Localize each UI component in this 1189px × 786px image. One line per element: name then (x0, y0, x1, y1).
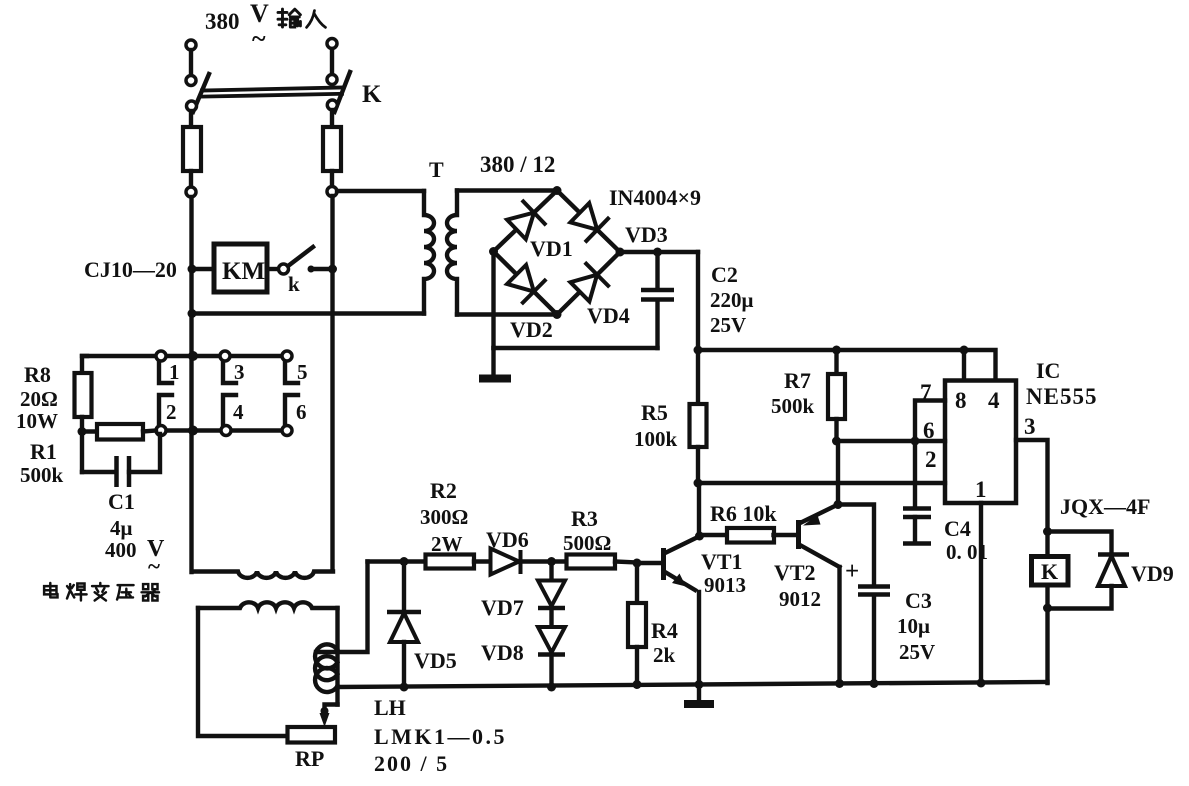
switch K left blade (193, 74, 209, 112)
contact blade 6 (285, 395, 298, 425)
contactor coil KM (214, 244, 267, 292)
diode VD7 (549, 562, 553, 581)
svg-text:5: 5 (297, 360, 308, 384)
svg-text:VD5: VD5 (414, 648, 457, 673)
node L2 top terminal (327, 39, 337, 49)
svg-text:25V: 25V (710, 313, 746, 337)
svg-text:R5: R5 (641, 400, 668, 425)
label 输入 (input) (278, 9, 325, 27)
transistor VT2 (796, 520, 801, 549)
capacitor C4 (913, 441, 917, 507)
diode VD8 (549, 608, 553, 627)
svg-text:C1: C1 (108, 489, 135, 514)
contact blade 5 (285, 362, 298, 383)
svg-text:C2: C2 (711, 262, 738, 287)
svg-text:C4: C4 (944, 516, 971, 541)
wire bottom rail (338, 682, 1048, 687)
wire right feeder (330, 196, 334, 571)
node (188, 309, 197, 318)
svg-text:K: K (362, 81, 382, 108)
resistor R1 (82, 429, 97, 433)
svg-text:4: 4 (233, 400, 244, 424)
contact terminal 2 (156, 426, 166, 436)
diode VD4 (570, 275, 597, 302)
wire secondary bottom to bridge (457, 312, 557, 316)
contact blade 2 (159, 395, 172, 425)
svg-text:VD1: VD1 (530, 236, 573, 261)
switch K linkage bar (202, 88, 342, 91)
diode VD6 (491, 549, 520, 575)
svg-text:300Ω: 300Ω (420, 505, 468, 529)
contact terminal 6 (282, 426, 292, 436)
resistor R5 (696, 350, 700, 404)
diode VD5 (402, 562, 406, 612)
svg-text:K: K (1041, 559, 1058, 584)
wire DC output (620, 250, 698, 254)
svg-text:VD4: VD4 (587, 303, 630, 328)
resistor R4 (635, 563, 639, 603)
svg-text:VD7: VD7 (481, 595, 524, 620)
svg-text:CJ10—20: CJ10—20 (84, 257, 177, 282)
T secondary winding (447, 191, 457, 315)
svg-text:220μ: 220μ (710, 288, 754, 312)
switch K right blade (335, 72, 351, 112)
wire (267, 267, 278, 271)
node L1 hinge terminal (186, 76, 196, 86)
svg-text:2: 2 (925, 447, 937, 472)
wire VT1 collector up (697, 483, 701, 537)
svg-text:100k: 100k (634, 427, 678, 451)
wire (330, 171, 334, 186)
svg-text:~: ~ (252, 24, 266, 53)
svg-text:200 / 5: 200 / 5 (374, 751, 449, 776)
wire pin8 (962, 350, 966, 381)
wire (549, 655, 553, 688)
svg-text:2W: 2W (431, 532, 463, 556)
svg-text:500k: 500k (20, 463, 64, 487)
svg-text:C3: C3 (905, 588, 932, 613)
diode VD3 (570, 203, 597, 230)
resistor R8 (75, 373, 92, 417)
svg-text:9013: 9013 (704, 573, 746, 597)
wire (330, 49, 334, 74)
contact blade 4 (223, 395, 236, 425)
contact terminal 3 (220, 351, 230, 361)
diode VD1 (507, 213, 534, 240)
wire to RP wiper (325, 705, 338, 719)
svg-text:9012: 9012 (779, 587, 821, 611)
contact blade 3 (223, 362, 236, 383)
svg-text:NE555: NE555 (1026, 384, 1097, 409)
wire pin2 rail (698, 481, 945, 485)
svg-text:4μ: 4μ (110, 516, 133, 540)
capacitor C2 (655, 300, 659, 348)
wire secondary right drop (335, 608, 339, 651)
wire pin3 (1016, 440, 1048, 532)
wire (308, 266, 315, 273)
contact blade 1 (159, 362, 172, 383)
node on right feeder (328, 265, 337, 274)
capacitor C1 (82, 470, 116, 474)
svg-text:380 / 12: 380 / 12 (480, 152, 555, 177)
svg-text:3: 3 (234, 360, 245, 384)
ground (491, 348, 495, 375)
node on left feeder (188, 265, 197, 274)
label 电焊变压器 (welding transformer) (44, 583, 159, 601)
svg-text:2: 2 (166, 400, 177, 424)
svg-text:380: 380 (205, 9, 240, 34)
svg-text:LMK1—0.5: LMK1—0.5 (374, 724, 507, 749)
wire pin1 (979, 503, 983, 683)
svg-text:~: ~ (148, 554, 160, 579)
node (188, 426, 198, 436)
svg-text:400: 400 (105, 538, 137, 562)
contact k blade (288, 247, 313, 266)
wire VT2 emitter up to R7 node (836, 441, 840, 505)
wire V+ rail (698, 350, 996, 381)
svg-text:500k: 500k (771, 394, 815, 418)
svg-text:4: 4 (988, 388, 1000, 413)
svg-text:R7: R7 (784, 368, 811, 393)
svg-text:VT1: VT1 (701, 549, 743, 574)
svg-text:LH: LH (374, 695, 406, 720)
wire (80, 417, 84, 472)
svg-text:R6 10k: R6 10k (710, 501, 777, 526)
welding transformer secondary (198, 602, 338, 608)
svg-text:20Ω: 20Ω (20, 387, 58, 411)
IC U1 NE555 box (945, 381, 1016, 504)
transistor VT1 (661, 548, 666, 580)
svg-text:R2: R2 (430, 478, 457, 503)
svg-text:500Ω: 500Ω (563, 531, 611, 555)
contact terminal 5 (282, 351, 292, 361)
svg-text:R4: R4 (651, 618, 678, 643)
fuse FU2 (323, 127, 341, 171)
resistor R6 (700, 533, 727, 537)
current transformer LH winding (315, 644, 337, 692)
node L2 lower contact (327, 100, 337, 110)
label 380V input (205, 0, 269, 53)
capacitor C3 (838, 505, 874, 586)
diode VD2 (507, 265, 534, 292)
svg-text:VD6: VD6 (486, 527, 529, 552)
wire bridge minus down (491, 252, 495, 349)
node (78, 427, 87, 436)
transistor VT1 base wire (637, 561, 662, 565)
ground (697, 685, 701, 702)
wire (615, 562, 637, 563)
svg-text:IN4004×9: IN4004×9 (609, 185, 701, 210)
node L1 lower contact (187, 101, 197, 111)
node (188, 351, 198, 361)
contact terminal 4 (221, 426, 231, 436)
wire (474, 559, 491, 563)
wire pin6 line (837, 439, 946, 443)
svg-text:VT2: VT2 (774, 560, 816, 585)
svg-text:VD3: VD3 (625, 222, 668, 247)
svg-text:R1: R1 (30, 439, 57, 464)
svg-text:3: 3 (1024, 414, 1036, 439)
wire secondary top to bridge (457, 188, 557, 192)
svg-text:T: T (429, 157, 444, 182)
welding transformer primary (192, 572, 333, 578)
wire relay to bottom rail (1045, 608, 1049, 683)
wire (519, 559, 567, 563)
bridge edges (494, 191, 558, 252)
resistor R7 (834, 350, 838, 374)
wire (189, 111, 193, 127)
svg-text:6: 6 (923, 418, 935, 443)
contact terminal 1 (156, 351, 166, 361)
wire VT1 emitter down (697, 592, 701, 685)
wire to T primary top (337, 189, 424, 193)
wire (189, 171, 193, 187)
svg-text:10W: 10W (16, 409, 58, 433)
wire bottom contact rail (161, 428, 287, 432)
svg-text:R3: R3 (571, 506, 598, 531)
bridge node dots (553, 186, 562, 195)
wire top contact rail (82, 354, 287, 358)
diode VD9 (1048, 532, 1112, 555)
svg-text:7: 7 (920, 380, 932, 405)
contact k terminal (279, 264, 289, 274)
wire left feeder (189, 197, 193, 572)
RP wiper arrow (320, 713, 330, 727)
svg-text:+: + (845, 558, 859, 585)
wire secondary left drop (198, 608, 288, 736)
svg-text:RP: RP (295, 746, 324, 771)
svg-text:IC: IC (1036, 358, 1060, 383)
svg-text:1: 1 (975, 477, 987, 502)
resistor R3 (567, 555, 616, 569)
svg-text:VD8: VD8 (481, 640, 524, 665)
wire CT tap to control rail (316, 562, 368, 653)
wire (189, 50, 193, 75)
wire ground rail under bridge (494, 346, 658, 350)
svg-text:10μ: 10μ (897, 614, 930, 638)
wire (82, 356, 87, 373)
svg-text:VD2: VD2 (510, 317, 553, 342)
node below right fuse (327, 187, 337, 197)
svg-text:6: 6 (296, 400, 307, 424)
node L1 top terminal (186, 40, 196, 50)
wire control top rail (368, 559, 426, 563)
svg-text:8: 8 (955, 388, 967, 413)
svg-text:25V: 25V (899, 640, 935, 664)
wire T primary bottom to left feeder (192, 311, 424, 315)
node L2 hinge terminal (327, 75, 337, 85)
node below left fuse (186, 187, 196, 197)
svg-text:VD9: VD9 (1131, 561, 1174, 586)
fuse FU1 (183, 127, 201, 171)
svg-text:R8: R8 (24, 362, 51, 387)
potentiometer RP (288, 727, 336, 743)
svg-text:k: k (288, 272, 300, 296)
svg-text:1: 1 (169, 360, 180, 384)
svg-text:2k: 2k (653, 643, 676, 667)
resistor R2 (426, 555, 475, 569)
wire pin7 bracket (915, 401, 945, 442)
svg-text:JQX—4F: JQX—4F (1060, 494, 1150, 519)
wire VT2 collector down (837, 567, 841, 684)
wire (192, 267, 214, 271)
relay coil K (1045, 532, 1049, 557)
T primary winding (424, 191, 434, 314)
wire (330, 110, 334, 127)
svg-text:KM: KM (222, 258, 265, 285)
